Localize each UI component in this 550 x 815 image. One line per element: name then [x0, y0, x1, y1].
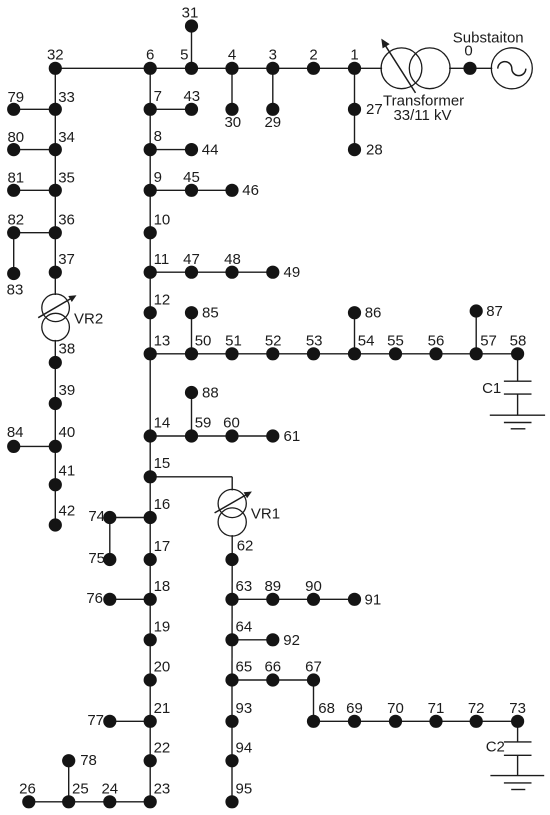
svg-text:80: 80 [7, 129, 24, 146]
svg-text:44: 44 [202, 141, 219, 158]
bus 6 [144, 46, 157, 75]
svg-text:28: 28 [366, 141, 383, 158]
bus 31 [182, 5, 199, 33]
bus 67 [305, 659, 322, 687]
bus 34 [49, 129, 75, 156]
svg-text:51: 51 [225, 332, 242, 349]
bus 0 [463, 43, 476, 75]
svg-text:21: 21 [154, 700, 171, 717]
bus 61 [266, 428, 300, 445]
svg-text:65: 65 [236, 659, 253, 676]
substation AC source [491, 48, 532, 89]
bus 24 [101, 780, 118, 808]
capacitor C2 [504, 742, 532, 776]
svg-text:88: 88 [202, 385, 219, 402]
svg-text:9: 9 [154, 169, 162, 186]
svg-text:17: 17 [154, 538, 171, 555]
svg-text:69: 69 [346, 700, 363, 717]
wire stub 88-59 [191, 393, 193, 437]
wire lateral 65-66-67 [232, 679, 314, 681]
svg-text:91: 91 [365, 591, 382, 608]
wire link VR1 drop [231, 477, 233, 491]
svg-text:VR1: VR1 [251, 506, 280, 523]
svg-text:VR2: VR2 [74, 311, 103, 328]
svg-text:40: 40 [59, 424, 76, 441]
bus 95 [225, 780, 252, 808]
svg-text:59: 59 [195, 415, 212, 432]
svg-text:58: 58 [510, 332, 527, 349]
wire feeder 1-27-28 [354, 68, 356, 149]
bus 36 [49, 212, 75, 240]
svg-text:61: 61 [284, 428, 301, 445]
wire stub 18-76 [110, 598, 150, 600]
wire stub 8-44 [150, 149, 191, 151]
svg-text:48: 48 [224, 251, 241, 268]
wire stub 82-36 [14, 232, 56, 234]
svg-text:79: 79 [7, 89, 24, 106]
bus 91 [348, 591, 381, 608]
bus 1 [348, 46, 361, 75]
svg-text:11: 11 [154, 251, 170, 268]
wire lateral 37 to VR2 [54, 272, 56, 295]
svg-text:63: 63 [236, 578, 253, 595]
bus 33 [49, 89, 75, 116]
svg-text:41: 41 [59, 462, 76, 479]
wire riser 31-5 [191, 26, 193, 68]
wire link 15 to VR1 horizontal [150, 476, 232, 478]
wire drop 58 to C1 [517, 354, 519, 381]
svg-text:1: 1 [350, 46, 358, 63]
bus 74 [88, 508, 116, 525]
svg-text:39: 39 [59, 382, 76, 399]
wire stub 79-33 [14, 108, 56, 110]
wire stub 64-92 [232, 639, 273, 641]
svg-text:47: 47 [183, 251, 200, 268]
bus 12 [144, 291, 171, 319]
svg-text:75: 75 [88, 550, 105, 567]
svg-text:24: 24 [101, 780, 118, 797]
wire stub 80-34 [14, 149, 56, 151]
label Transformer 33/11 kV [383, 93, 464, 125]
bus 57 [470, 332, 497, 360]
bus 22 [144, 739, 171, 767]
bus 66 [264, 659, 281, 687]
bus 88 [185, 385, 219, 402]
bus 65 [225, 659, 252, 687]
svg-text:45: 45 [183, 169, 200, 186]
svg-text:76: 76 [86, 590, 103, 607]
svg-text:22: 22 [154, 739, 171, 756]
bus 83 [7, 267, 24, 299]
wire stub 86-54 [354, 313, 356, 354]
wire feeder 62-65 [231, 560, 233, 681]
bus 63 [225, 578, 252, 606]
svg-text:3: 3 [269, 46, 277, 63]
bus 30 [224, 103, 241, 131]
bus 2 [307, 46, 320, 75]
bus 89 [264, 578, 281, 606]
svg-text:25: 25 [72, 780, 89, 797]
svg-text:26: 26 [19, 780, 36, 797]
svg-text:71: 71 [428, 700, 445, 717]
bus 25 [62, 780, 89, 808]
wire feeder 65-93-94-95 [231, 680, 233, 802]
wire lateral 14-59-60-61 [150, 435, 273, 437]
voltage regulator VR1 [215, 489, 252, 536]
svg-text:16: 16 [154, 496, 171, 513]
svg-text:C1: C1 [482, 380, 501, 397]
svg-text:84: 84 [7, 424, 24, 441]
svg-text:53: 53 [306, 332, 323, 349]
wire lateral 63-89-90-91 [232, 598, 355, 600]
bus 53 [306, 332, 323, 360]
svg-text:52: 52 [265, 332, 282, 349]
wire lateral 11-47-48-49 [150, 271, 273, 273]
bus 55 [387, 332, 404, 360]
svg-text:42: 42 [59, 502, 76, 519]
bus 19 [144, 618, 171, 646]
wire stub 74-75 [109, 518, 111, 560]
svg-text:73: 73 [509, 700, 526, 717]
svg-text:43: 43 [183, 88, 200, 105]
svg-text:64: 64 [236, 618, 253, 635]
bus 87 [470, 303, 503, 320]
bus 79 [7, 89, 24, 116]
bus 42 [49, 502, 75, 531]
bus 60 [223, 415, 240, 443]
svg-text:36: 36 [58, 212, 75, 229]
bus 37 [49, 251, 75, 279]
bus 15 [144, 455, 171, 483]
svg-text:90: 90 [305, 578, 322, 595]
transformer tap arrow [381, 39, 415, 93]
bus 20 [144, 659, 171, 687]
bus 59 [185, 415, 211, 443]
svg-text:23: 23 [154, 780, 171, 797]
svg-text:93: 93 [236, 700, 253, 717]
svg-text:82: 82 [7, 212, 24, 229]
wire stub 21-77 [110, 720, 150, 722]
svg-text:86: 86 [365, 305, 382, 322]
wire branch 3-29 [272, 68, 274, 109]
svg-text:94: 94 [236, 739, 253, 756]
wire stub 87-57 [475, 311, 477, 354]
svg-text:55: 55 [387, 332, 404, 349]
wire stub 85-50 [191, 313, 193, 354]
bus 9 [144, 169, 162, 197]
bus 50 [185, 332, 211, 360]
svg-text:95: 95 [236, 780, 253, 797]
svg-text:33: 33 [58, 89, 75, 106]
bus 73 [509, 700, 526, 728]
svg-text:72: 72 [468, 700, 485, 717]
bus 51 [225, 332, 242, 360]
svg-text:0: 0 [464, 43, 472, 60]
svg-text:85: 85 [202, 305, 219, 322]
bus 21 [144, 700, 171, 728]
bus 45 [183, 169, 200, 197]
bus 38 [49, 341, 75, 370]
wire stub 84-40 [14, 445, 56, 447]
svg-text:14: 14 [154, 415, 171, 432]
bus 81 [7, 170, 24, 197]
svg-text:31: 31 [182, 5, 199, 22]
wire drop 73 to C2 [517, 721, 519, 742]
bus 90 [305, 578, 322, 606]
bus 92 [266, 632, 300, 649]
bus 7 [144, 88, 162, 116]
svg-text:19: 19 [154, 618, 171, 635]
svg-text:62: 62 [237, 538, 254, 555]
svg-text:4: 4 [228, 46, 236, 63]
bus 46 [225, 182, 259, 199]
wire lateral 68-69..73 [314, 720, 518, 722]
bus 39 [49, 382, 75, 410]
bus 27 [348, 101, 383, 118]
wire left lateral 38-42 [54, 363, 56, 526]
wire lateral 9-45-46 [150, 189, 232, 191]
wire stub 81-35 [14, 189, 56, 191]
bus 93 [225, 700, 252, 728]
svg-text:38: 38 [59, 341, 76, 358]
bus 23 [144, 780, 171, 808]
voltage regulator VR2 [38, 294, 76, 341]
svg-text:33/11 kV: 33/11 kV [393, 107, 451, 124]
bus 75 [88, 550, 116, 567]
bus 29 [264, 103, 281, 131]
svg-text:49: 49 [284, 264, 301, 281]
wire VR1 to node 62 [231, 535, 233, 559]
ground under C2 [490, 776, 544, 790]
bus 16 [144, 496, 171, 524]
svg-text:2: 2 [309, 46, 317, 63]
svg-text:92: 92 [283, 632, 300, 649]
transformer T1 33/11 kV [381, 48, 450, 89]
bus 85 [185, 305, 219, 322]
svg-text:12: 12 [154, 291, 171, 308]
svg-text:89: 89 [264, 578, 281, 595]
bus 80 [7, 129, 24, 156]
ground under C1 [490, 415, 545, 429]
svg-text:27: 27 [366, 101, 383, 118]
wire left lateral 32-37 [54, 68, 56, 272]
svg-text:54: 54 [358, 332, 375, 349]
svg-text:66: 66 [264, 659, 281, 676]
svg-text:6: 6 [146, 46, 154, 63]
svg-text:C2: C2 [486, 739, 505, 756]
svg-text:7: 7 [154, 88, 162, 105]
bus 10 [144, 211, 171, 239]
bus 52 [265, 332, 282, 360]
bus 26 [19, 780, 36, 808]
svg-text:18: 18 [154, 578, 171, 595]
svg-text:56: 56 [428, 332, 445, 349]
svg-text:20: 20 [154, 659, 171, 676]
wire main feeder 6-23 [149, 68, 151, 802]
bus 71 [428, 700, 445, 728]
wire transformer secondary to bus 0 [449, 67, 492, 69]
svg-text:15: 15 [154, 455, 171, 472]
bus 5 [180, 46, 198, 75]
wire stub 16-74 [110, 517, 150, 519]
bus 18 [144, 578, 171, 606]
bus 68 [307, 700, 335, 728]
bus 40 [49, 424, 75, 453]
svg-text:57: 57 [480, 332, 497, 349]
svg-text:78: 78 [80, 752, 97, 769]
bus 94 [225, 739, 252, 767]
svg-text:13: 13 [154, 332, 171, 349]
wire main 33kV bus 32-1 to transformer [55, 67, 382, 69]
bus 49 [266, 264, 300, 281]
wire stub 82-83 [13, 233, 15, 274]
svg-text:35: 35 [58, 170, 75, 187]
svg-text:46: 46 [242, 182, 259, 199]
wire trunk 13-50..58 [150, 353, 517, 355]
svg-text:74: 74 [88, 508, 105, 525]
svg-text:10: 10 [154, 211, 171, 228]
svg-text:5: 5 [180, 46, 188, 63]
bus 70 [387, 700, 404, 728]
capacitor C1 [504, 381, 532, 415]
svg-text:77: 77 [87, 712, 104, 729]
bus 3 [266, 46, 279, 75]
bus 78 [62, 752, 97, 769]
svg-text:34: 34 [58, 129, 75, 146]
bus 72 [468, 700, 485, 728]
wire stub 7-43 [150, 108, 191, 110]
bus 8 [144, 128, 162, 156]
bus 54 [348, 332, 375, 360]
svg-text:87: 87 [486, 303, 503, 320]
svg-text:81: 81 [7, 170, 24, 187]
svg-text:32: 32 [47, 46, 64, 63]
bus 11 [144, 251, 170, 279]
bus 48 [224, 251, 241, 279]
bus 32 [47, 46, 64, 75]
bus 77 [87, 712, 116, 729]
svg-text:30: 30 [224, 114, 241, 131]
svg-text:60: 60 [223, 415, 240, 432]
bus 35 [49, 170, 75, 197]
bus 28 [348, 141, 383, 158]
bus 47 [183, 251, 200, 279]
bus 44 [185, 141, 219, 158]
wire lateral 23-24-25-26 [29, 801, 150, 803]
svg-text:37: 37 [58, 251, 75, 268]
bus 82 [7, 212, 24, 240]
svg-text:8: 8 [154, 128, 162, 145]
bus 84 [7, 424, 24, 453]
svg-text:29: 29 [264, 114, 281, 131]
wire VR2 to node 38 [54, 340, 56, 363]
svg-text:83: 83 [7, 282, 24, 299]
wire branch 4-30 [231, 68, 233, 109]
wire stub 78-25 [68, 761, 70, 802]
bus 43 [183, 88, 200, 116]
bus 76 [86, 590, 116, 607]
bus 62 [225, 538, 253, 567]
bus 56 [428, 332, 445, 360]
bus 4 [225, 46, 238, 75]
bus 17 [144, 538, 171, 566]
bus 58 [510, 332, 527, 360]
bus 86 [348, 305, 381, 322]
svg-text:50: 50 [195, 332, 212, 349]
bus 14 [144, 415, 171, 443]
bus 64 [225, 618, 252, 646]
wire drop 67-68 [313, 680, 315, 721]
bus 69 [346, 700, 363, 728]
bus 41 [49, 462, 75, 491]
svg-text:70: 70 [387, 700, 404, 717]
bus 13 [144, 332, 171, 360]
svg-text:68: 68 [318, 700, 335, 717]
svg-text:67: 67 [305, 659, 322, 676]
